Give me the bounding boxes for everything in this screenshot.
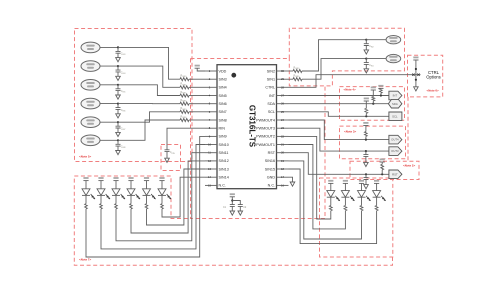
pin 17 GND (right): [277, 176, 289, 178]
ground: [364, 69, 369, 73]
resistor RLED D2: [100, 195, 102, 203]
svg-text:OUT4: OUT4: [391, 138, 399, 142]
wire LED D5 to SIN13: [147, 169, 206, 225]
touch pad PAD5: [81, 117, 100, 128]
capacitor CRIN: [165, 150, 170, 152]
svg-text:SIN12: SIN12: [219, 159, 229, 163]
ground: [116, 151, 121, 155]
ground: [116, 76, 121, 80]
wire RSIN8 to pin: [189, 119, 205, 121]
pin 19 SIN16 (right): [277, 160, 289, 162]
LED D9: [359, 180, 364, 182]
note box: RIN capacitor: [161, 145, 181, 171]
resistor RLED D7: [330, 197, 332, 205]
IC U1 GT316L-TS body: [217, 65, 277, 189]
ground: [116, 132, 121, 136]
wire LED D10: [289, 169, 377, 244]
svg-text:22: 22: [281, 134, 284, 138]
resistor RSIN4: [180, 86, 189, 89]
CTRL option x-marks: [412, 74, 414, 76]
wire RSIN3 to pin: [189, 78, 205, 80]
svg-text:<Note 3>: <Note 3>: [344, 129, 357, 133]
wire PWMOUT4 to OUT4 tag: [289, 120, 389, 140]
LED D7: [328, 180, 333, 182]
wire LED D4 to SIN12: [131, 161, 205, 233]
resistor RSIN5: [180, 94, 189, 97]
capacitor CIN2: [365, 40, 367, 44]
svg-text:27: 27: [281, 94, 284, 98]
resistor RLED D6: [161, 195, 163, 203]
resistor RSIN7: [180, 110, 189, 113]
wire LED D8: [289, 145, 346, 229]
svg-text:26: 26: [281, 102, 284, 106]
LED D8: [343, 180, 348, 182]
wire CTRL pin to CTRL options: [289, 75, 421, 88]
pin 10 SIN10 (left): [205, 144, 217, 146]
wire RIN pin to CRIN: [167, 128, 205, 150]
svg-text:10: 10: [208, 143, 211, 147]
wire LED D1 to SIN9: [86, 136, 205, 257]
ground: [364, 185, 369, 189]
svg-text:RIN: RIN: [219, 127, 226, 131]
resistor RLED D4: [130, 195, 132, 203]
wire SCL pin to tag: [289, 112, 389, 117]
LED D3: [113, 177, 118, 179]
pin 9 SIN9 (left): [205, 135, 217, 137]
capacitor C1: [230, 205, 235, 207]
svg-text:SIN16: SIN16: [265, 159, 275, 163]
pin 1 marker dot: [231, 73, 236, 78]
pull-up resistor RSCL: [365, 115, 367, 117]
wire pad5 to SIN7: [100, 121, 118, 123]
pin 6 SIN7 (left): [205, 111, 217, 113]
svg-text:SIN3: SIN3: [219, 78, 227, 82]
touch pad PAD3: [81, 80, 100, 91]
capacitor CIN1: [365, 59, 367, 63]
pin 7 SIN8 (left): [205, 119, 217, 121]
svg-text:SIN8: SIN8: [219, 118, 227, 122]
touch pad PAD6: [81, 135, 100, 146]
wire INT pin to tag: [289, 95, 389, 97]
pin 30 SIN2 (right): [277, 70, 289, 72]
wire RSIN4 to pin: [189, 86, 205, 88]
pin 26 SDA (right): [277, 103, 289, 105]
pin 23 PWMOUT3 (right): [277, 127, 289, 129]
pin 14 SIN14 (left): [205, 176, 217, 178]
pin 22 PWMOUT2 (right): [277, 135, 289, 137]
pin 12 SIN12 (left): [205, 160, 217, 162]
touch pad PAD-SIN1: [386, 54, 401, 62]
note box: OUT4/OUT3 (Note 3): [340, 126, 406, 159]
pin 20 RST (right): [277, 152, 289, 154]
svg-text:PWMOUT4: PWMOUT4: [256, 118, 275, 122]
svg-text:30: 30: [281, 69, 284, 73]
pin 28 CTRL (right): [277, 86, 289, 88]
svg-text:11: 11: [208, 151, 211, 155]
note box: RST (Note 2): [350, 161, 419, 179]
svg-text:PWMOUT3: PWMOUT3: [256, 127, 275, 131]
ground: [414, 87, 419, 91]
resistor RLED D8: [344, 197, 346, 205]
svg-text:SIN14: SIN14: [219, 176, 229, 180]
ground: [290, 182, 295, 186]
svg-text:PWMOUT1: PWMOUT1: [256, 143, 275, 147]
pin 29 SIN1 (right): [277, 78, 289, 80]
svg-text:18: 18: [281, 167, 284, 171]
resistor RSIN6: [180, 102, 189, 105]
capacitor CIN6: [117, 104, 119, 108]
svg-text:PWMOUT2: PWMOUT2: [256, 135, 275, 139]
svg-text:16: 16: [281, 183, 284, 187]
wire RSIN6 to pin: [189, 103, 205, 105]
svg-text:SIN5: SIN5: [219, 94, 227, 98]
pin 5 SIN6 (left): [205, 103, 217, 105]
pull-up resistor RRST: [381, 173, 383, 175]
ground: [116, 58, 121, 62]
svg-text:SIN11: SIN11: [219, 151, 229, 155]
svg-text:SIN2: SIN2: [267, 69, 275, 73]
LED D4: [128, 177, 133, 179]
wire CTRL pull-up vertical: [415, 60, 417, 87]
svg-text:SCL: SCL: [268, 110, 275, 114]
LED D5: [144, 177, 149, 179]
svg-text:<Note 5>: <Note 5>: [79, 155, 92, 159]
resistor RLED D1: [85, 195, 87, 203]
resistor RSIN8: [180, 119, 189, 122]
svg-text:SIN15: SIN15: [265, 167, 275, 171]
wire decoupling: [231, 197, 233, 205]
wire RSIN5 to pin: [189, 95, 205, 97]
wire GND pin to ground: [289, 177, 293, 182]
capacitor CIN8: [117, 140, 119, 144]
svg-text:21: 21: [281, 143, 284, 147]
pin 25 SCL (right): [277, 111, 289, 113]
svg-text:N.C.: N.C.: [268, 184, 275, 188]
note box: right boundary segment: [407, 97, 409, 161]
pin 2 SIN3 (left): [205, 78, 217, 80]
pull-up resistor RSDA: [372, 103, 374, 105]
svg-text:RST: RST: [392, 172, 398, 176]
svg-text:SIN6: SIN6: [219, 102, 227, 106]
resistor RLED D3: [115, 195, 117, 203]
svg-text:19: 19: [281, 159, 284, 163]
resistor RSIN3: [180, 78, 189, 81]
pin 15 N.C. (left): [205, 184, 217, 186]
ground: [364, 162, 369, 166]
svg-text:INT: INT: [269, 94, 276, 98]
wire pad3 to SIN5: [100, 84, 118, 86]
capacitor C2: [238, 205, 243, 207]
wire LED D3 to SIN11: [116, 153, 205, 241]
pin 4 SIN5 (left): [205, 95, 217, 97]
note box: bottom LED region (Note 7): [74, 176, 392, 265]
svg-text:23: 23: [281, 126, 284, 130]
svg-text:25: 25: [281, 110, 284, 114]
svg-text:CTRL: CTRL: [265, 86, 275, 90]
wire pad2 to SIN4: [100, 65, 118, 67]
svg-text:INT: INT: [393, 94, 398, 98]
note box: INT/SDA/SCL (Note 4): [340, 87, 405, 121]
resistor RLED D9: [361, 197, 363, 205]
svg-text:14: 14: [208, 175, 211, 179]
wire RSIN7 to pin: [189, 111, 205, 113]
pull-up resistor ROUT4: [365, 139, 367, 141]
pin 16 N.C. (right): [277, 184, 289, 186]
pin 27 INT (right): [277, 95, 289, 97]
svg-text:SDA: SDA: [267, 102, 275, 106]
tag INT: [389, 91, 402, 100]
ground: [165, 158, 170, 162]
wire SDA pin to tag: [289, 103, 389, 105]
power flag at CTRL pull-up: [413, 57, 418, 59]
tag OUT3: [389, 147, 402, 156]
power flag 5V at decoupling: [230, 193, 235, 195]
wire RST pin to tag: [289, 153, 389, 175]
svg-text:SIN13: SIN13: [219, 167, 229, 171]
note box: CTRL options (Note 6): [408, 55, 443, 97]
note box: left touch pads group (Note 5): [75, 29, 193, 162]
svg-text:SIN10: SIN10: [219, 143, 229, 147]
svg-text:29: 29: [281, 77, 284, 81]
capacitor CIN5: [117, 85, 119, 89]
LED D1: [83, 177, 88, 179]
capacitor CRST to ground: [365, 173, 367, 175]
wire LED D2 to SIN10: [101, 145, 205, 249]
svg-text:<Note 4>: <Note 4>: [344, 88, 357, 92]
tag SCL: [389, 112, 402, 121]
svg-text:<Note 6>: <Note 6>: [427, 89, 440, 93]
ground: [116, 95, 121, 99]
svg-text:RST: RST: [268, 151, 276, 155]
tag RST: [389, 170, 402, 179]
svg-text:SIN4: SIN4: [219, 86, 227, 90]
power flag 5V at VDD pin: [197, 68, 205, 71]
note box: chip region: [191, 59, 326, 219]
touch pad PAD4: [81, 98, 100, 109]
pin 8 RIN (left): [205, 127, 217, 129]
wire pad6 to SIN8: [100, 139, 118, 141]
svg-text:15: 15: [208, 183, 211, 187]
resistor RLED D10: [376, 197, 378, 205]
pin 18 SIN15 (right): [277, 168, 289, 170]
svg-text:12: 12: [208, 159, 211, 163]
ground: [230, 211, 235, 215]
svg-text:OUT3: OUT3: [391, 149, 399, 153]
resistor RSIN2: [289, 70, 294, 72]
capacitor CIN7: [117, 122, 119, 126]
pull-up resistor RINT: [380, 94, 382, 96]
capacitor CIN3: [117, 47, 119, 51]
svg-text:Options: Options: [426, 75, 440, 80]
note box: right LED group: [320, 178, 393, 257]
svg-text:28: 28: [281, 85, 284, 89]
pin 3 SIN4 (left): [205, 86, 217, 88]
svg-text:SIN7: SIN7: [219, 110, 227, 114]
touch pad PAD-SIN2: [386, 36, 401, 44]
resistor RSIN1: [289, 78, 294, 80]
pin 24 PWMOUT4 (right): [277, 119, 289, 121]
wire SIN2 to pad: [302, 40, 366, 71]
wire PWMOUT3 to OUT3 tag: [289, 128, 389, 151]
wire LED D7: [289, 136, 331, 219]
touch pad PAD2: [81, 61, 100, 72]
note box: right touch pads + series resistors region: [191, 28, 405, 86]
svg-text:N.C.: N.C.: [219, 184, 226, 188]
capacitor COUT3 to ground: [365, 150, 367, 152]
ground: [238, 211, 243, 215]
svg-text:<Note 2>: <Note 2>: [403, 163, 416, 167]
svg-text:VDD: VDD: [219, 69, 227, 73]
touch pad PAD1: [81, 42, 100, 53]
LED D6: [159, 177, 164, 179]
svg-text:<Note 7>: <Note 7>: [79, 258, 92, 262]
svg-text:GND: GND: [267, 176, 276, 180]
pin 21 PWMOUT1 (right): [277, 144, 289, 146]
tag OUT4: [389, 135, 402, 144]
resistor RLED D5: [146, 195, 148, 203]
LED D10: [374, 180, 379, 182]
svg-text:17: 17: [281, 175, 284, 179]
LED D2: [98, 177, 103, 179]
svg-text:20: 20: [281, 151, 284, 155]
wire SIN1 to pad: [302, 59, 366, 80]
svg-text:SDA: SDA: [392, 102, 398, 106]
svg-text:SIN1: SIN1: [267, 78, 275, 82]
capacitor CIN4: [117, 66, 119, 70]
ground: [364, 50, 369, 54]
svg-text:GT316L-TS: GT316L-TS: [248, 105, 257, 148]
wire LED D9: [289, 161, 362, 239]
ground: [116, 114, 121, 118]
svg-text:24: 24: [281, 118, 284, 122]
svg-text:13: 13: [208, 167, 211, 171]
pin 13 SIN13 (left): [205, 168, 217, 170]
wire pad1 to SIN3: [100, 46, 118, 48]
pin 11 SIN11 (left): [205, 152, 217, 154]
pin 1 VDD (left): [205, 70, 217, 72]
svg-text:SIN9: SIN9: [219, 135, 227, 139]
wire LED D6 to SIN14: [162, 177, 205, 217]
tag SDA: [388, 99, 402, 108]
wire pad4 to SIN6: [100, 103, 118, 105]
svg-text:SCL: SCL: [392, 114, 398, 118]
